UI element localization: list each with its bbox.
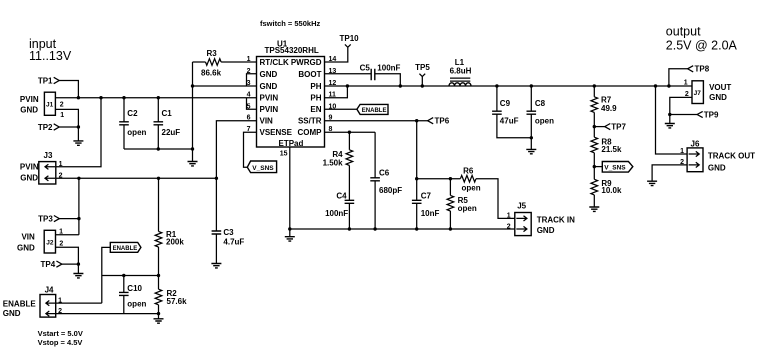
svg-text:TP8: TP8: [695, 65, 710, 74]
node R7 top junction: [593, 84, 596, 87]
svg-text:1: 1: [684, 79, 688, 86]
net tag ENABLE (divider): [102, 242, 141, 303]
svg-text:GND: GND: [20, 174, 38, 183]
svg-text:21.5k: 21.5k: [601, 145, 622, 154]
node C6 bottom junction: [373, 227, 376, 230]
svg-text:TP1: TP1: [38, 76, 53, 85]
resistor R5: [447, 179, 477, 229]
svg-text:open: open: [462, 183, 481, 192]
test point TP4: [41, 260, 79, 269]
wire J1 pin1 to ground: [55, 109, 78, 140]
net tag V_SNS (VSENSE): [247, 161, 276, 173]
node C8 bottom junction: [530, 136, 533, 139]
svg-text:1.50k: 1.50k: [323, 158, 344, 167]
op-amp U1 TPS54320RHL body: [257, 39, 325, 148]
svg-text:GND: GND: [537, 226, 555, 235]
svg-text:PH: PH: [310, 82, 321, 91]
svg-text:TP10: TP10: [340, 34, 360, 43]
wire ETPad stub: [289, 147, 291, 229]
wire J3 pin2 row to VIN vertical: [56, 177, 217, 179]
svg-text:V_SNS: V_SNS: [252, 165, 274, 172]
svg-text:RT/CLK: RT/CLK: [260, 58, 290, 67]
svg-text:COMP: COMP: [298, 128, 323, 137]
svg-text:C9: C9: [500, 99, 511, 108]
node R5 bottom junction: [449, 227, 452, 230]
svg-text:J2: J2: [46, 239, 54, 246]
svg-text:VIN: VIN: [21, 233, 35, 242]
svg-text:C2: C2: [127, 109, 138, 118]
wire analog bottom rail: [290, 228, 515, 230]
svg-text:C10: C10: [127, 284, 142, 293]
node R1/R2 junction: [157, 274, 160, 277]
svg-text:BOOT: BOOT: [298, 70, 321, 79]
svg-text:R7: R7: [601, 95, 612, 104]
svg-text:TP5: TP5: [415, 63, 430, 72]
wire U1 pin8 COMP: [325, 131, 376, 133]
node R5 top junction: [449, 177, 452, 180]
node TP8 junction: [667, 84, 670, 87]
pin numbers U1 right: [329, 56, 337, 133]
ground below J6: [647, 181, 657, 185]
ground below J7: [665, 124, 675, 128]
svg-text:2: 2: [507, 224, 511, 231]
svg-text:TP4: TP4: [41, 260, 56, 269]
net tag V_SNS (divider): [594, 162, 633, 173]
svg-text:open: open: [535, 116, 554, 125]
node R4 top junction: [348, 131, 351, 134]
svg-text:VIN: VIN: [260, 117, 274, 126]
wire J2 pin1: [56, 234, 79, 236]
svg-text:C6: C6: [379, 168, 390, 177]
svg-text:GND: GND: [709, 93, 727, 102]
test point TP9: [670, 110, 719, 119]
wire U1 pin6 VIN down to C3: [216, 121, 256, 231]
svg-text:1: 1: [507, 213, 511, 220]
svg-text:V_SNS: V_SNS: [604, 165, 626, 172]
svg-text:open: open: [127, 128, 146, 137]
capacitor C1: [154, 96, 181, 149]
svg-text:ENABLE: ENABLE: [113, 246, 138, 252]
node R5R6 branch junction: [415, 177, 418, 180]
svg-text:open: open: [127, 299, 146, 308]
svg-text:R3: R3: [207, 49, 218, 58]
node J3 riser junction on rail: [99, 96, 102, 99]
resistor R1: [155, 178, 184, 275]
ground below R2: [154, 319, 164, 323]
resistor R3: [193, 49, 257, 77]
node V_SNS junction: [593, 165, 596, 168]
svg-text:TRACK IN: TRACK IN: [537, 215, 575, 224]
capacitor C8: [527, 84, 555, 149]
svg-text:output: output: [666, 25, 701, 39]
wire J4 pin1: [56, 302, 102, 304]
svg-text:ENABLE: ENABLE: [362, 108, 387, 114]
svg-text:47uF: 47uF: [500, 116, 519, 125]
svg-text:22uF: 22uF: [162, 128, 181, 137]
svg-text:4.7uF: 4.7uF: [223, 237, 244, 246]
svg-text:TP2: TP2: [38, 123, 53, 132]
wire J4 pin2: [56, 313, 159, 315]
svg-text:11..13V: 11..13V: [29, 49, 72, 63]
node SS/TR C7 junction: [415, 119, 418, 122]
svg-text:J5: J5: [517, 202, 526, 211]
wire U1 pin5 PVIN jog: [247, 98, 257, 110]
net tag ENABLE (EN pin): [325, 104, 389, 114]
node TP3 junction: [77, 217, 80, 220]
svg-text:J7: J7: [694, 90, 702, 97]
svg-text:R6: R6: [463, 166, 474, 175]
node R1 top junction: [157, 177, 160, 180]
connector J1: [20, 92, 64, 119]
svg-text:2.5V @ 2.0A: 2.5V @ 2.0A: [666, 39, 738, 53]
wire U1 pin3 GND: [193, 85, 257, 87]
connector J3: [20, 151, 63, 184]
svg-text:C3: C3: [223, 228, 234, 237]
node C7 bottom junction: [415, 227, 418, 230]
test point TP3: [38, 214, 79, 223]
test point TP5: [415, 63, 430, 86]
resistor R2: [155, 276, 187, 319]
svg-text:VSENSE: VSENSE: [260, 128, 293, 137]
wire enable row: [102, 275, 159, 277]
svg-text:GND: GND: [260, 70, 278, 79]
svg-text:GND: GND: [20, 105, 38, 114]
connector J6: [680, 140, 755, 173]
ground below J2/TP4: [73, 274, 83, 278]
svg-text:2: 2: [60, 101, 64, 108]
svg-text:49.9: 49.9: [601, 104, 617, 113]
test point TP8: [669, 65, 710, 86]
wire C2/C1 bottoms to gnd stem: [124, 148, 193, 150]
svg-text:PVIN: PVIN: [260, 105, 279, 114]
svg-text:TP6: TP6: [435, 117, 450, 126]
wire U1 pin7 VSENSE to V_SNS tag: [244, 132, 257, 167]
capacitor C9: [492, 84, 531, 138]
svg-text:EN: EN: [310, 105, 321, 114]
node J3pin2/TP3 riser junction: [77, 177, 80, 180]
svg-text:680pF: 680pF: [379, 186, 402, 195]
resistor R9: [591, 179, 622, 207]
wire J2 pin2 to ground: [56, 247, 79, 273]
ground below C3: [211, 264, 221, 268]
svg-text:C4: C4: [336, 191, 347, 200]
svg-text:6.8uH: 6.8uH: [450, 67, 472, 76]
connector J4: [3, 286, 62, 319]
svg-text:J4: J4: [45, 286, 54, 295]
capacitor C2: [119, 96, 146, 149]
node J6 riser junction: [654, 84, 657, 87]
wire GND vertical (R3 left / U1 GND pins to ground): [192, 62, 194, 162]
svg-text:C8: C8: [535, 99, 546, 108]
svg-text:1: 1: [60, 112, 64, 119]
svg-text:GND: GND: [17, 243, 35, 252]
svg-text:57.6k: 57.6k: [167, 297, 188, 306]
svg-text:GND: GND: [708, 164, 726, 173]
connector J5: [507, 202, 575, 236]
svg-text:GND: GND: [260, 82, 278, 91]
svg-text:Vstop = 4.5V: Vstop = 4.5V: [38, 338, 83, 347]
inductor L1: [449, 58, 472, 86]
wire PVIN rail (J1 pin2 to U1 pin4): [55, 97, 256, 99]
resistor R4: [323, 132, 353, 200]
svg-text:VOUT: VOUT: [709, 83, 731, 92]
node C10 top junction: [122, 274, 125, 277]
svg-text:100nF: 100nF: [377, 63, 400, 72]
ground below C8: [526, 149, 536, 153]
connector J2: [17, 229, 63, 254]
svg-text:fswitch = 550kHz: fswitch = 550kHz: [260, 19, 320, 28]
svg-text:10nF: 10nF: [421, 209, 440, 218]
node TP4 junction: [77, 262, 80, 265]
svg-text:10.0k: 10.0k: [601, 186, 622, 195]
node J4 pin2 junction: [157, 312, 160, 315]
resistor R7: [591, 86, 617, 127]
svg-text:J1: J1: [46, 102, 54, 109]
node TP5 junction: [421, 84, 424, 87]
svg-text:1: 1: [680, 148, 684, 155]
svg-text:C1: C1: [162, 109, 173, 118]
wire SS/TR vertical to C7: [416, 121, 418, 201]
wire J3 pin1 riser to PVIN rail: [56, 98, 101, 167]
node C1 bottom junction: [157, 147, 160, 150]
node ETPad gnd junction: [288, 227, 291, 230]
node VIN/J3pin2 junction: [215, 177, 218, 180]
capacitor C5: [325, 63, 401, 86]
svg-text:PVIN: PVIN: [20, 95, 39, 104]
svg-text:15: 15: [280, 151, 288, 158]
svg-text:TRACK OUT: TRACK OUT: [708, 152, 755, 161]
capacitor C10: [119, 276, 147, 314]
svg-text:SS/TR: SS/TR: [298, 117, 322, 126]
wire U1 pin11 PH jog: [325, 86, 348, 98]
wire J6 pin2 to ground: [652, 165, 687, 181]
wire SS/TR to TP6: [325, 120, 428, 122]
ground below J1: [73, 141, 83, 145]
capacitor C6: [370, 132, 402, 229]
svg-text:C7: C7: [421, 191, 432, 200]
svg-text:2: 2: [685, 91, 689, 98]
pin numbers U1 left: [247, 56, 251, 133]
node pin11 junction: [346, 84, 349, 87]
svg-text:2: 2: [59, 240, 63, 247]
ground below ETPad rail: [285, 229, 295, 241]
svg-text:J6: J6: [691, 140, 700, 149]
svg-text:TP3: TP3: [38, 214, 53, 223]
svg-text:100nF: 100nF: [325, 209, 348, 218]
test point TP10: [325, 34, 360, 62]
svg-text:J3: J3: [44, 151, 53, 160]
node TP7 junction: [593, 125, 596, 128]
node C5 junction: [399, 84, 402, 87]
node GND pin3 junction: [191, 84, 194, 87]
svg-text:TP9: TP9: [704, 110, 719, 119]
svg-text:200k: 200k: [166, 237, 184, 246]
node TP1/rail junction: [77, 96, 80, 99]
node C4 bottom junction: [348, 227, 351, 230]
test point TP2: [38, 123, 79, 132]
node TP2 junction: [77, 125, 80, 128]
connector J7: [684, 79, 732, 103]
svg-text:open: open: [458, 204, 477, 213]
resistor R8: [591, 127, 622, 180]
test point TP1: [38, 76, 79, 97]
wire TP3/J2 riser: [78, 178, 80, 235]
capacitor C3: [212, 228, 245, 264]
svg-text:Vstart = 5.0V: Vstart = 5.0V: [38, 329, 83, 338]
node C1C2 gnd junction: [191, 147, 194, 150]
svg-text:PWRGD: PWRGD: [291, 58, 322, 67]
capacitor C4: [325, 191, 354, 229]
svg-text:GND: GND: [3, 309, 21, 318]
capacitor C7: [412, 191, 440, 229]
svg-text:C5: C5: [360, 63, 371, 72]
ground main input: [188, 162, 198, 166]
test point TP6: [428, 117, 450, 126]
svg-text:ETPad: ETPad: [279, 139, 304, 148]
svg-text:TPS54320RHL: TPS54320RHL: [265, 46, 319, 55]
wire R5R6 branch row: [417, 178, 461, 180]
ground below R9: [589, 207, 599, 211]
test point TP7: [594, 122, 626, 131]
svg-text:PVIN: PVIN: [260, 94, 279, 103]
wire J6 pin1 riser: [656, 86, 688, 154]
node TP9 junction: [668, 113, 671, 116]
resistor R6: [460, 166, 514, 218]
wire PH output rail: [325, 85, 693, 87]
svg-text:PH: PH: [310, 94, 321, 103]
svg-text:TP7: TP7: [611, 122, 626, 131]
wire U1 pin2 GND jog: [247, 74, 257, 86]
wire J7 pin2 to ground: [670, 97, 692, 123]
svg-text:PVIN: PVIN: [20, 163, 39, 172]
svg-text:ENABLE: ENABLE: [3, 299, 37, 308]
svg-text:86.6k: 86.6k: [201, 69, 222, 78]
